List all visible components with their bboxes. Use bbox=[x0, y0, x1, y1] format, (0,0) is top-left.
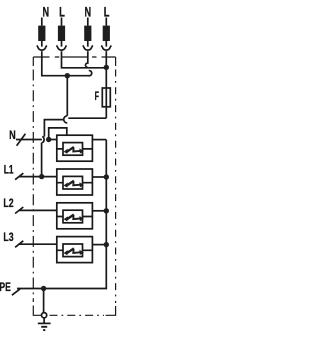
svg-text:L1: L1 bbox=[4, 162, 14, 176]
svg-text:L: L bbox=[59, 4, 65, 19]
svg-text:L: L bbox=[104, 4, 110, 19]
svg-text:L3: L3 bbox=[3, 230, 13, 244]
svg-text:F: F bbox=[95, 89, 99, 103]
svg-text:N: N bbox=[85, 4, 92, 19]
svg-text:PE: PE bbox=[0, 280, 11, 294]
svg-text:L2: L2 bbox=[3, 196, 13, 210]
svg-text:N: N bbox=[43, 4, 50, 19]
svg-text:N: N bbox=[9, 128, 16, 142]
